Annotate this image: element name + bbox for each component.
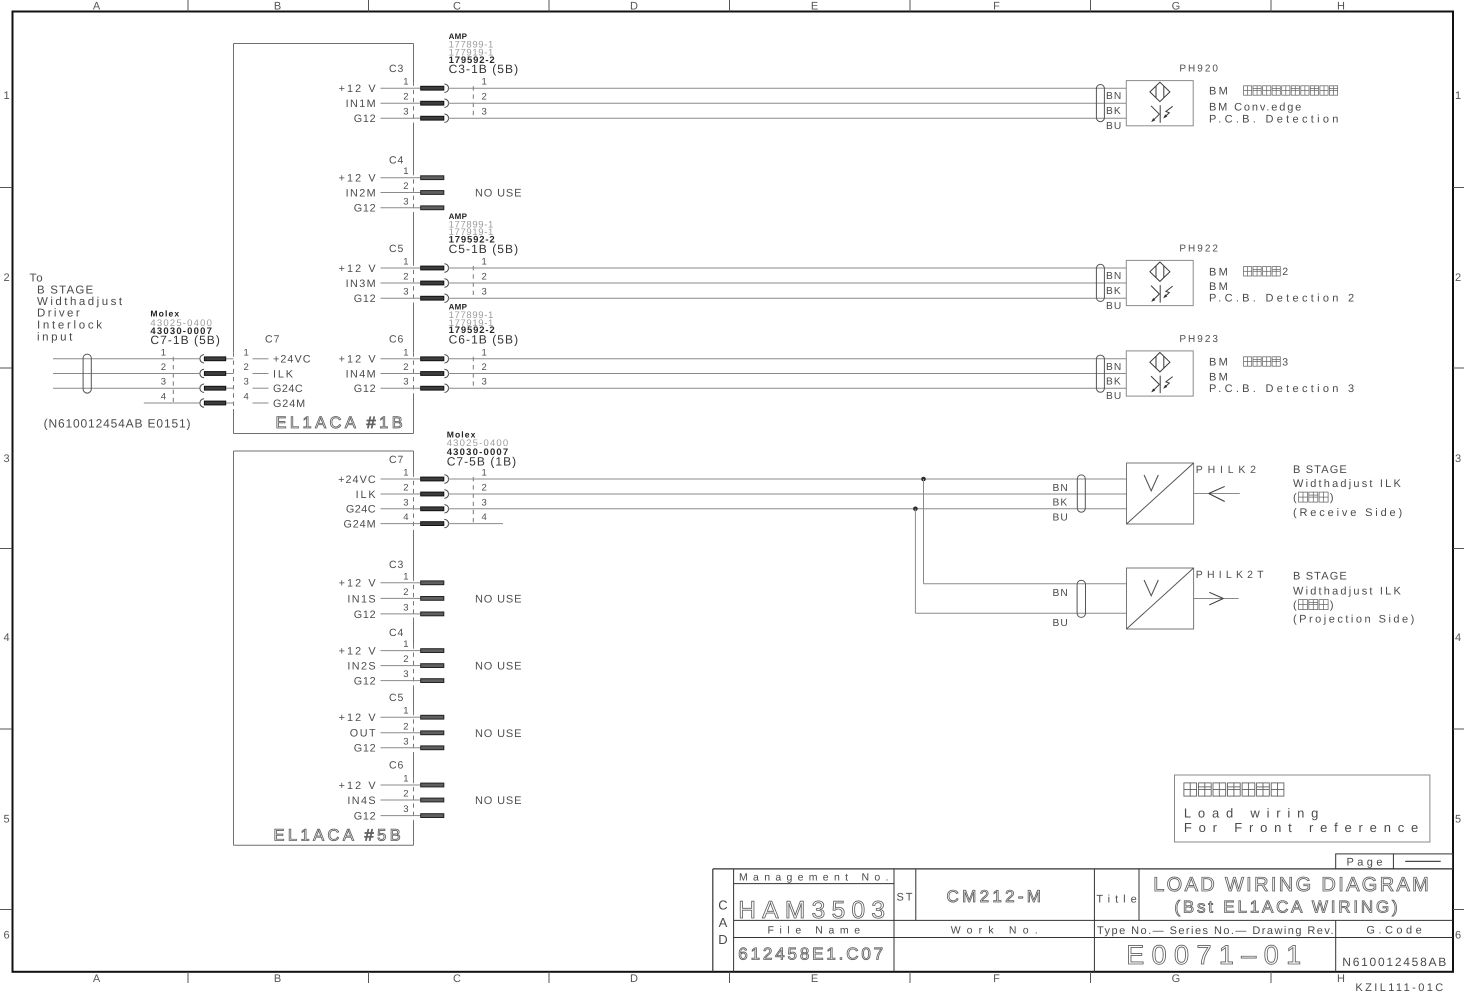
- svg-text:IN4M: IN4M: [346, 368, 377, 380]
- svg-text:A: A: [93, 973, 101, 985]
- svg-text:1: 1: [403, 347, 408, 358]
- svg-text:3: 3: [403, 287, 408, 298]
- svg-text:G12: G12: [354, 293, 377, 305]
- part labels AMP C5-1B (5B): [449, 212, 520, 256]
- svg-text:EL1ACA #1B: EL1ACA #1B: [275, 414, 406, 432]
- svg-text:+12 V: +12 V: [339, 173, 378, 185]
- svg-text:BM: BM: [1209, 357, 1230, 369]
- interlock sensor PHILK2 symbol: [1127, 463, 1194, 524]
- svg-text:2: 2: [482, 92, 487, 103]
- svg-text:+12 V: +12 V: [339, 263, 378, 275]
- svg-text:E: E: [811, 1, 819, 13]
- svg-text:6: 6: [3, 930, 9, 942]
- svg-text:G24M: G24M: [343, 519, 376, 531]
- svg-text:C5-1B (5B): C5-1B (5B): [449, 242, 520, 256]
- wire C7-1B pin4 stub: [144, 402, 200, 404]
- svg-text:(Receive Side): (Receive Side): [1293, 507, 1405, 519]
- svg-text:C3: C3: [389, 559, 404, 571]
- connector C4: [339, 155, 444, 215]
- svg-text:3: 3: [403, 602, 408, 613]
- svg-text:Work No.: Work No.: [951, 925, 1044, 937]
- description text PH923: [1209, 356, 1357, 395]
- svg-text:ST: ST: [896, 891, 914, 903]
- svg-text:NO USE: NO USE: [475, 795, 522, 807]
- svg-text:G12: G12: [354, 203, 377, 215]
- photo sensor PH920 symbol: [1126, 81, 1193, 126]
- svg-text:2: 2: [1282, 266, 1288, 278]
- svg-text:1: 1: [482, 347, 487, 358]
- svg-text:BU: BU: [1053, 512, 1069, 523]
- svg-text:2: 2: [244, 362, 249, 373]
- svg-text:For Front reference: For Front reference: [1184, 820, 1425, 835]
- svg-text:Molex: Molex: [150, 309, 180, 319]
- svg-text:BK: BK: [1106, 286, 1122, 297]
- svg-text:2: 2: [403, 362, 408, 373]
- wire C3-3 to PH920 BU: [448, 117, 1127, 119]
- connector C5: [339, 243, 449, 305]
- svg-text:BN: BN: [1053, 588, 1069, 599]
- svg-text:C: C: [453, 973, 461, 985]
- svg-text:P.C.B. Detection: P.C.B. Detection: [1209, 113, 1342, 125]
- description text PH922: [1209, 266, 1357, 305]
- svg-text:G.Code: G.Code: [1366, 925, 1425, 937]
- svg-text:BM Conv.edge: BM Conv.edge: [1209, 102, 1303, 114]
- wire C7-5B pin2 to PHILK2 BK: [448, 493, 1127, 495]
- svg-text:N610012458AB: N610012458AB: [1342, 955, 1448, 969]
- svg-text:2: 2: [403, 181, 408, 192]
- module EL1ACA #1B outline: [234, 44, 414, 434]
- wire C7-5B pin4 stub: [448, 523, 503, 525]
- svg-text:3: 3: [482, 287, 487, 298]
- svg-text:1: 1: [3, 90, 9, 102]
- svg-text:3: 3: [482, 377, 487, 388]
- svg-text:1: 1: [482, 77, 487, 88]
- svg-text:(: (: [1293, 492, 1297, 504]
- label CAD: [718, 897, 727, 947]
- svg-text:2: 2: [1455, 272, 1461, 284]
- svg-text:4: 4: [244, 392, 249, 403]
- svg-text:1: 1: [403, 571, 408, 582]
- svg-text:A: A: [719, 915, 728, 930]
- wire C7-1B pin3 to B STAGE: [53, 387, 200, 389]
- svg-text:): ): [1330, 492, 1334, 504]
- svg-text:C4: C4: [389, 155, 404, 167]
- wire C7-5B pin3 to PHILK2 BU: [448, 508, 1127, 510]
- svg-text:C5: C5: [389, 243, 404, 255]
- svg-text:BN: BN: [1106, 271, 1122, 282]
- row numbers right: [1455, 90, 1461, 942]
- svg-text:): ): [1330, 600, 1334, 612]
- wire C6-3 to PH923 BU: [448, 387, 1127, 389]
- wire branch to PHILK2T BU: [915, 509, 1126, 613]
- svg-text:G24C: G24C: [273, 383, 303, 395]
- svg-text:C6: C6: [389, 760, 404, 772]
- svg-text:G24M: G24M: [273, 398, 306, 410]
- connector C5 (EL1ACA #5B): [339, 692, 444, 755]
- svg-text:C6: C6: [389, 333, 404, 345]
- connector C4 (EL1ACA #5B): [339, 627, 444, 688]
- svg-text:+12 V: +12 V: [339, 646, 378, 658]
- connector C7 (EL1ACA #1B): [200, 333, 312, 410]
- svg-text:B STAGE: B STAGE: [37, 284, 94, 296]
- svg-text:B STAGE: B STAGE: [1293, 570, 1348, 582]
- svg-text:P.C.B. Detection 3: P.C.B. Detection 3: [1209, 383, 1357, 395]
- svg-text:+12 V: +12 V: [339, 83, 378, 95]
- title block grid: [713, 869, 1453, 972]
- svg-text:BU: BU: [1053, 618, 1069, 629]
- svg-text:+12 V: +12 V: [339, 578, 378, 590]
- module EL1ACA #5B outline: [234, 451, 414, 845]
- connector C6 (EL1ACA #5B): [339, 760, 444, 823]
- svg-text:BM: BM: [1209, 371, 1230, 383]
- svg-text:3: 3: [244, 377, 249, 388]
- beam arrow PHILK2T: [1194, 592, 1239, 605]
- svg-text:IN4S: IN4S: [347, 795, 377, 807]
- svg-text:IN1S: IN1S: [347, 593, 377, 605]
- svg-text:1: 1: [482, 257, 487, 268]
- svg-text:A: A: [93, 1, 101, 13]
- wire C7-1B pin1 to B STAGE: [53, 358, 200, 360]
- svg-text:2: 2: [161, 362, 166, 373]
- svg-text:3: 3: [3, 453, 9, 465]
- svg-text:BU: BU: [1106, 301, 1122, 312]
- svg-text:5: 5: [1455, 814, 1461, 826]
- svg-text:Driver: Driver: [37, 308, 82, 320]
- svg-text:C3-1B (5B): C3-1B (5B): [449, 62, 520, 76]
- svg-text:BU: BU: [1106, 121, 1122, 132]
- wire color labels BN BU PHILK2T: [1053, 588, 1069, 629]
- svg-text:4: 4: [3, 632, 9, 644]
- svg-text:1: 1: [482, 468, 487, 479]
- svg-text:2: 2: [403, 92, 408, 103]
- svg-text:3: 3: [403, 107, 408, 118]
- svg-text:IN1M: IN1M: [346, 98, 377, 110]
- svg-text:1: 1: [403, 639, 408, 650]
- row numbers left: [3, 90, 9, 942]
- svg-text:BN: BN: [1053, 483, 1069, 494]
- svg-text:C6-1B (5B): C6-1B (5B): [449, 333, 520, 347]
- row tick marks right: [1453, 188, 1464, 910]
- svg-text:Widthadjust: Widthadjust: [37, 296, 125, 308]
- svg-text:G24C: G24C: [346, 504, 376, 516]
- part labels Molex C7-1B (5B): [150, 309, 221, 347]
- beam arrow PHILK2: [1194, 486, 1240, 501]
- connector C7: [338, 454, 448, 531]
- svg-text:1: 1: [403, 77, 408, 88]
- svg-text:HAM3503: HAM3503: [738, 897, 891, 924]
- svg-text:+12 V: +12 V: [339, 780, 378, 792]
- svg-text:2: 2: [3, 272, 9, 284]
- svg-text:C7: C7: [389, 454, 404, 466]
- photo sensor PH922 symbol: [1126, 260, 1193, 305]
- svg-text:G12: G12: [354, 609, 377, 621]
- svg-text:C5: C5: [389, 692, 404, 704]
- svg-text:+24VC: +24VC: [338, 474, 377, 486]
- svg-text:G12: G12: [354, 811, 377, 823]
- mating connector pins C5: [473, 257, 486, 298]
- description text PHILK2: [1293, 464, 1405, 519]
- svg-text:OUT: OUT: [350, 728, 377, 740]
- title LOAD WIRING DIAGRAM: [1153, 874, 1431, 916]
- svg-text:2: 2: [403, 654, 408, 665]
- svg-text:BK: BK: [1106, 377, 1122, 388]
- description text PH920: [1209, 86, 1342, 126]
- svg-text:IN2S: IN2S: [347, 661, 377, 673]
- svg-text:BU: BU: [1106, 391, 1122, 402]
- column tick marks bottom: [188, 972, 1271, 983]
- svg-text:C3: C3: [389, 63, 404, 75]
- svg-text:PHILK2: PHILK2: [1196, 464, 1261, 476]
- svg-text:NO USE: NO USE: [475, 661, 522, 673]
- svg-text:Management No.: Management No.: [739, 871, 894, 883]
- svg-text:2: 2: [482, 272, 487, 283]
- svg-text:Widthadjust ILK: Widthadjust ILK: [1293, 478, 1403, 490]
- svg-text:G: G: [1172, 1, 1181, 13]
- svg-text:1: 1: [403, 774, 408, 785]
- wire C7-5B pin1 to PHILK2 BN: [448, 478, 1127, 480]
- svg-text:G: G: [1172, 973, 1181, 985]
- connector C6: [339, 333, 449, 395]
- svg-text:3: 3: [403, 497, 408, 508]
- cable sheath oval C7-1B: [83, 354, 91, 393]
- cable sheath oval PHILK2T: [1077, 580, 1085, 617]
- svg-text:C7-1B (5B): C7-1B (5B): [150, 333, 221, 347]
- svg-text:3: 3: [1455, 453, 1461, 465]
- svg-text:1: 1: [244, 347, 249, 358]
- svg-text:input: input: [37, 331, 75, 343]
- svg-text:1: 1: [1455, 90, 1461, 102]
- svg-text:(: (: [1293, 600, 1297, 612]
- svg-text:B: B: [274, 1, 282, 13]
- svg-text:2: 2: [403, 721, 408, 732]
- svg-text:KZIL111-01C: KZIL111-01C: [1355, 982, 1445, 992]
- svg-text:D: D: [718, 932, 727, 947]
- svg-text:NO USE: NO USE: [475, 728, 522, 740]
- svg-text:3: 3: [1282, 356, 1288, 368]
- svg-text:+12 V: +12 V: [339, 712, 378, 724]
- svg-text:PHILK2T: PHILK2T: [1196, 569, 1268, 581]
- svg-text:BK: BK: [1053, 498, 1069, 509]
- wire C3-2 to PH920 BK: [448, 102, 1127, 104]
- svg-text:CM212-M: CM212-M: [947, 887, 1045, 906]
- svg-text:2: 2: [403, 272, 408, 283]
- mating connector pins C6: [473, 347, 486, 387]
- part labels AMP C6-1B (5B): [449, 303, 520, 347]
- svg-text:4: 4: [403, 512, 408, 523]
- svg-text:G12: G12: [354, 113, 377, 125]
- wire branch to PHILK2T BN: [924, 479, 1127, 584]
- cable sheath oval PH920: [1096, 85, 1104, 122]
- cable sheath oval PHILK2: [1077, 475, 1085, 512]
- svg-text:F: F: [993, 1, 1000, 13]
- svg-text:1: 1: [403, 257, 408, 268]
- svg-text:5: 5: [3, 814, 9, 826]
- mating connector pins C3: [473, 77, 486, 118]
- svg-text:(N610012454AB E0151): (N610012454AB E0151): [44, 417, 192, 431]
- svg-text:PH922: PH922: [1179, 243, 1220, 254]
- wire C7-1B pin2 to B STAGE: [53, 373, 200, 375]
- svg-text:2: 2: [403, 483, 408, 494]
- svg-text:BN: BN: [1106, 362, 1122, 373]
- svg-text:BK: BK: [1106, 106, 1122, 117]
- row tick marks left: [0, 188, 12, 910]
- svg-text:D: D: [630, 973, 638, 985]
- svg-text:Interlock: Interlock: [37, 319, 105, 331]
- svg-text:1: 1: [161, 347, 166, 358]
- svg-text:2: 2: [403, 789, 408, 800]
- svg-text:Type No.— Series No.— Drawing: Type No.— Series No.— Drawing Rev.: [1097, 925, 1335, 937]
- svg-text:G12: G12: [354, 743, 377, 755]
- part labels AMP C3-1B (5B): [449, 32, 520, 76]
- column tick marks top: [188, 0, 1271, 12]
- svg-text:+12 V: +12 V: [339, 354, 378, 366]
- svg-text:612458E1.C07: 612458E1.C07: [738, 945, 886, 964]
- svg-text:Title: Title: [1096, 894, 1141, 906]
- svg-text:BM: BM: [1209, 266, 1230, 278]
- svg-text:IN3M: IN3M: [346, 278, 377, 290]
- svg-text:ILK: ILK: [356, 489, 378, 501]
- svg-text:B: B: [274, 973, 282, 985]
- description text PHILK2T: [1293, 570, 1417, 625]
- svg-text:EL1ACA #5B: EL1ACA #5B: [273, 826, 404, 844]
- interlock sensor PHILK2T symbol: [1127, 568, 1194, 629]
- svg-text:To: To: [30, 272, 44, 284]
- column letters bottom: [93, 973, 1346, 985]
- svg-text:Page: Page: [1347, 856, 1386, 868]
- svg-text:1: 1: [403, 166, 408, 177]
- wire C5-1 to PH922 BN: [448, 267, 1127, 269]
- svg-text:4: 4: [482, 512, 487, 523]
- page box: [1336, 854, 1453, 869]
- svg-text:C: C: [718, 897, 727, 912]
- svg-text:BM: BM: [1209, 86, 1230, 98]
- svg-text:3: 3: [482, 497, 487, 508]
- svg-text:1: 1: [403, 706, 408, 717]
- wire C5-2 to PH922 BK: [448, 282, 1127, 284]
- svg-text:3: 3: [403, 377, 408, 388]
- note box Load wiring For Front reference: [1175, 775, 1430, 842]
- junction dot pin3 branch: [913, 507, 918, 512]
- svg-text:1: 1: [403, 468, 408, 479]
- svg-text:3: 3: [403, 804, 408, 815]
- note To B STAGE Widthadjust Driver Interlock input: [30, 272, 125, 343]
- svg-text:P.C.B. Detection 2: P.C.B. Detection 2: [1209, 293, 1357, 305]
- svg-text:G12: G12: [354, 383, 377, 395]
- svg-text:3: 3: [403, 669, 408, 680]
- svg-text:IN2M: IN2M: [346, 187, 377, 199]
- svg-text:BN: BN: [1106, 91, 1122, 102]
- svg-text:H: H: [1337, 973, 1345, 985]
- svg-text:H: H: [1337, 1, 1345, 13]
- svg-text:2: 2: [403, 587, 408, 598]
- connector C3 (EL1ACA #5B): [339, 559, 444, 621]
- cable sheath oval PH923: [1096, 355, 1104, 392]
- photo sensor PH923 symbol: [1126, 351, 1193, 396]
- svg-text:C4: C4: [389, 627, 404, 639]
- wire color labels BN BK BU PH922: [1106, 271, 1122, 312]
- wire C6-2 to PH923 BK: [448, 373, 1127, 375]
- connector C3: [339, 63, 449, 125]
- wire color labels BN BK BU PH920: [1106, 91, 1122, 132]
- svg-text:C7-5B (1B): C7-5B (1B): [447, 454, 518, 468]
- svg-text:3: 3: [403, 196, 408, 207]
- wire color labels BN BK BU PH923: [1106, 362, 1122, 402]
- svg-text:(Projection Side): (Projection Side): [1293, 614, 1417, 626]
- svg-text:+24VC: +24VC: [273, 354, 312, 366]
- wire color labels BN BK BU PHILK2: [1053, 483, 1069, 523]
- svg-text:F: F: [993, 973, 1000, 985]
- svg-text:6: 6: [1455, 930, 1461, 942]
- svg-text:3: 3: [403, 736, 408, 747]
- wire C6-1 to PH923 BN: [448, 358, 1127, 360]
- svg-text:D: D: [630, 1, 638, 13]
- svg-text:PH920: PH920: [1179, 64, 1220, 75]
- svg-text:ILK: ILK: [273, 368, 295, 380]
- mating connector pins C7: [473, 468, 486, 524]
- svg-text:NO USE: NO USE: [475, 593, 522, 605]
- svg-text:(Bst EL1ACA WIRING): (Bst EL1ACA WIRING): [1174, 897, 1400, 916]
- column letters top: [93, 1, 1346, 13]
- svg-text:C: C: [453, 1, 461, 13]
- mating connector pins C7-1B: [161, 347, 174, 402]
- wire C5-3 to PH922 BU: [448, 297, 1127, 299]
- svg-text:4: 4: [161, 392, 166, 403]
- svg-text:4: 4: [1455, 632, 1461, 644]
- svg-text:NO USE: NO USE: [475, 188, 522, 200]
- svg-text:PH923: PH923: [1179, 334, 1220, 345]
- junction dot pin1 branch: [921, 477, 926, 482]
- svg-text:E: E: [811, 973, 819, 985]
- svg-text:LOAD WIRING DIAGRAM: LOAD WIRING DIAGRAM: [1153, 874, 1431, 896]
- svg-text:B STAGE: B STAGE: [1293, 464, 1348, 476]
- svg-text:2: 2: [482, 362, 487, 373]
- svg-text:BM: BM: [1209, 281, 1230, 293]
- svg-text:3: 3: [482, 107, 487, 118]
- svg-text:C7: C7: [265, 333, 280, 345]
- svg-text:E0071–01: E0071–01: [1126, 940, 1308, 970]
- cable sheath oval PH922: [1096, 264, 1104, 301]
- svg-text:3: 3: [161, 377, 166, 388]
- svg-text:Widthadjust ILK: Widthadjust ILK: [1293, 586, 1403, 598]
- svg-text:File Name: File Name: [767, 925, 865, 937]
- wire C3-1 to PH920 BN: [448, 87, 1127, 89]
- part labels Molex C7-5B (1B): [447, 430, 518, 469]
- svg-text:G12: G12: [354, 676, 377, 688]
- svg-text:Load wiring: Load wiring: [1184, 806, 1325, 821]
- svg-text:2: 2: [482, 483, 487, 494]
